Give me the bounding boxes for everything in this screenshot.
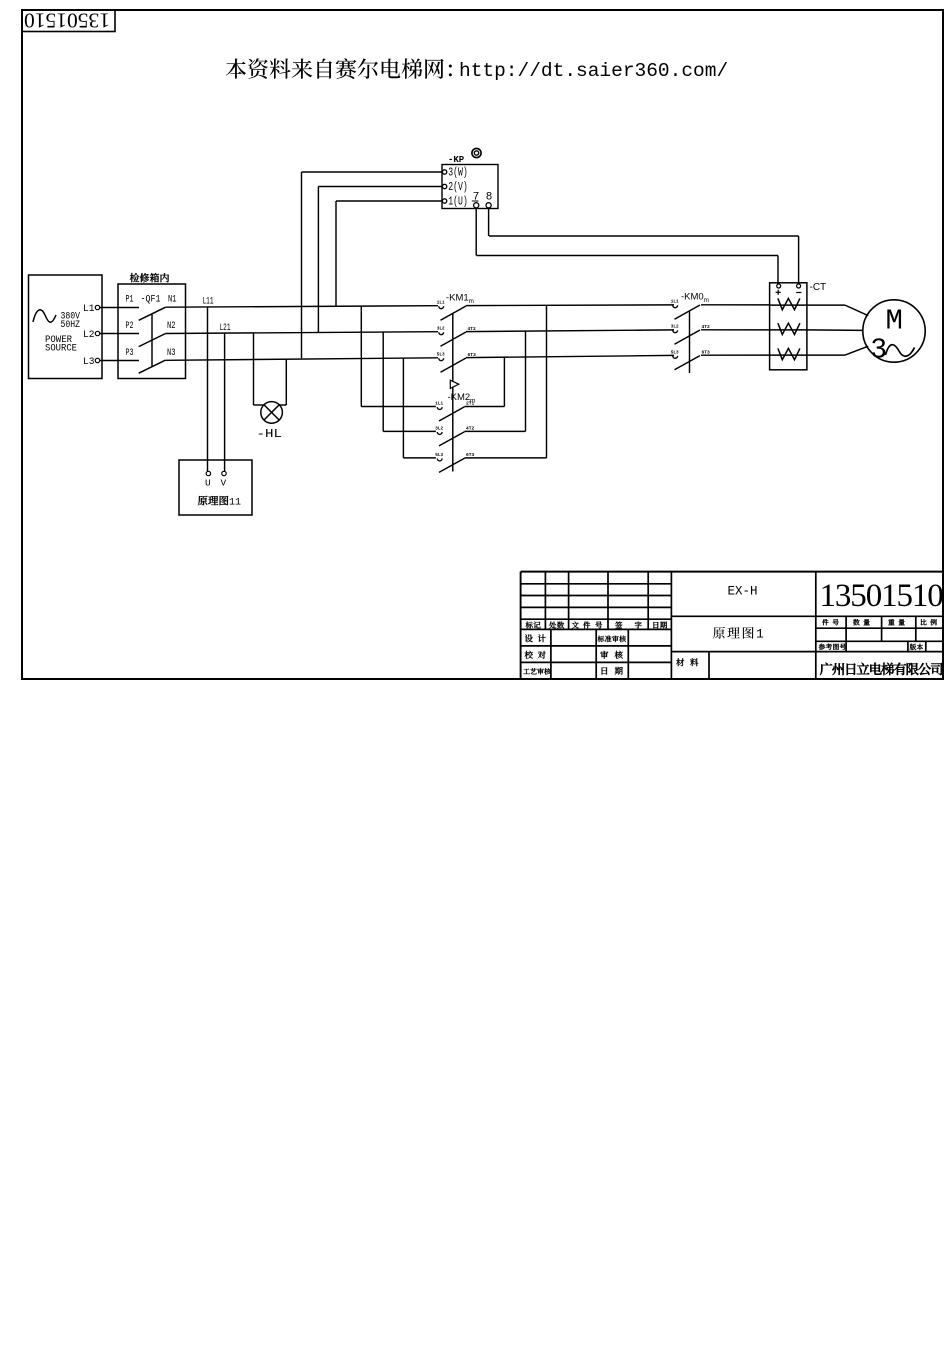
svg-text:3: 3 (871, 333, 887, 364)
svg-text:U: U (205, 478, 211, 489)
svg-text:P1: P1 (126, 294, 134, 306)
svg-text:11: 11 (229, 498, 241, 509)
svg-text:http://dt.saier360.com/: http://dt.saier360.com/ (459, 60, 728, 82)
svg-text:2(V): 2(V) (448, 181, 468, 194)
svg-text:6T3: 6T3 (468, 352, 477, 358)
svg-text:1L1: 1L1 (437, 301, 445, 306)
svg-text:L11: L11 (203, 296, 214, 308)
svg-text:4T2: 4T2 (702, 324, 711, 330)
svg-text:50HZ: 50HZ (61, 319, 81, 331)
svg-text:-QF1: -QF1 (141, 294, 161, 306)
svg-text:5L3: 5L3 (437, 353, 445, 358)
svg-text:P3: P3 (126, 347, 134, 359)
svg-text:1L1: 1L1 (671, 300, 679, 305)
svg-text:P2: P2 (126, 320, 134, 332)
svg-text:N1: N1 (168, 294, 177, 306)
svg-text:3L2: 3L2 (437, 327, 445, 332)
svg-text:13501510: 13501510 (820, 578, 944, 614)
svg-text:V: V (221, 478, 227, 489)
svg-text:-KM2: -KM2 (448, 392, 471, 403)
svg-text:1: 1 (756, 627, 764, 642)
svg-text:-CT: -CT (810, 282, 827, 293)
svg-text:5L3: 5L3 (671, 350, 679, 355)
svg-text:1L1: 1L1 (435, 402, 443, 407)
svg-text:m: m (470, 398, 475, 405)
svg-text:13501510: 13501510 (24, 9, 110, 33)
svg-text:-HL: -HL (257, 427, 283, 441)
svg-text:EX-H: EX-H (728, 585, 758, 599)
svg-text:6T3: 6T3 (702, 350, 711, 356)
svg-text:5L3: 5L3 (435, 453, 443, 458)
svg-text:L3: L3 (83, 356, 95, 368)
svg-text:-KM0: -KM0 (681, 292, 704, 303)
svg-text:8: 8 (486, 191, 493, 203)
svg-text:L2: L2 (83, 329, 95, 341)
svg-text:N3: N3 (167, 347, 176, 359)
svg-text:SOURCE: SOURCE (45, 343, 77, 355)
svg-text:N2: N2 (167, 320, 176, 332)
svg-text:3(W): 3(W) (448, 167, 468, 180)
svg-text:L21: L21 (220, 322, 231, 334)
svg-text:3L2: 3L2 (435, 426, 443, 431)
svg-text:-KM1: -KM1 (446, 293, 469, 304)
svg-text:L1: L1 (83, 303, 95, 315)
svg-text:4T2: 4T2 (468, 326, 477, 332)
svg-text:1(U): 1(U) (448, 196, 468, 209)
svg-text:-KP: -KP (448, 155, 465, 165)
svg-text:m: m (704, 297, 709, 304)
svg-text:3L2: 3L2 (671, 325, 679, 330)
svg-text:M: M (886, 305, 903, 338)
svg-text:m: m (469, 298, 474, 305)
